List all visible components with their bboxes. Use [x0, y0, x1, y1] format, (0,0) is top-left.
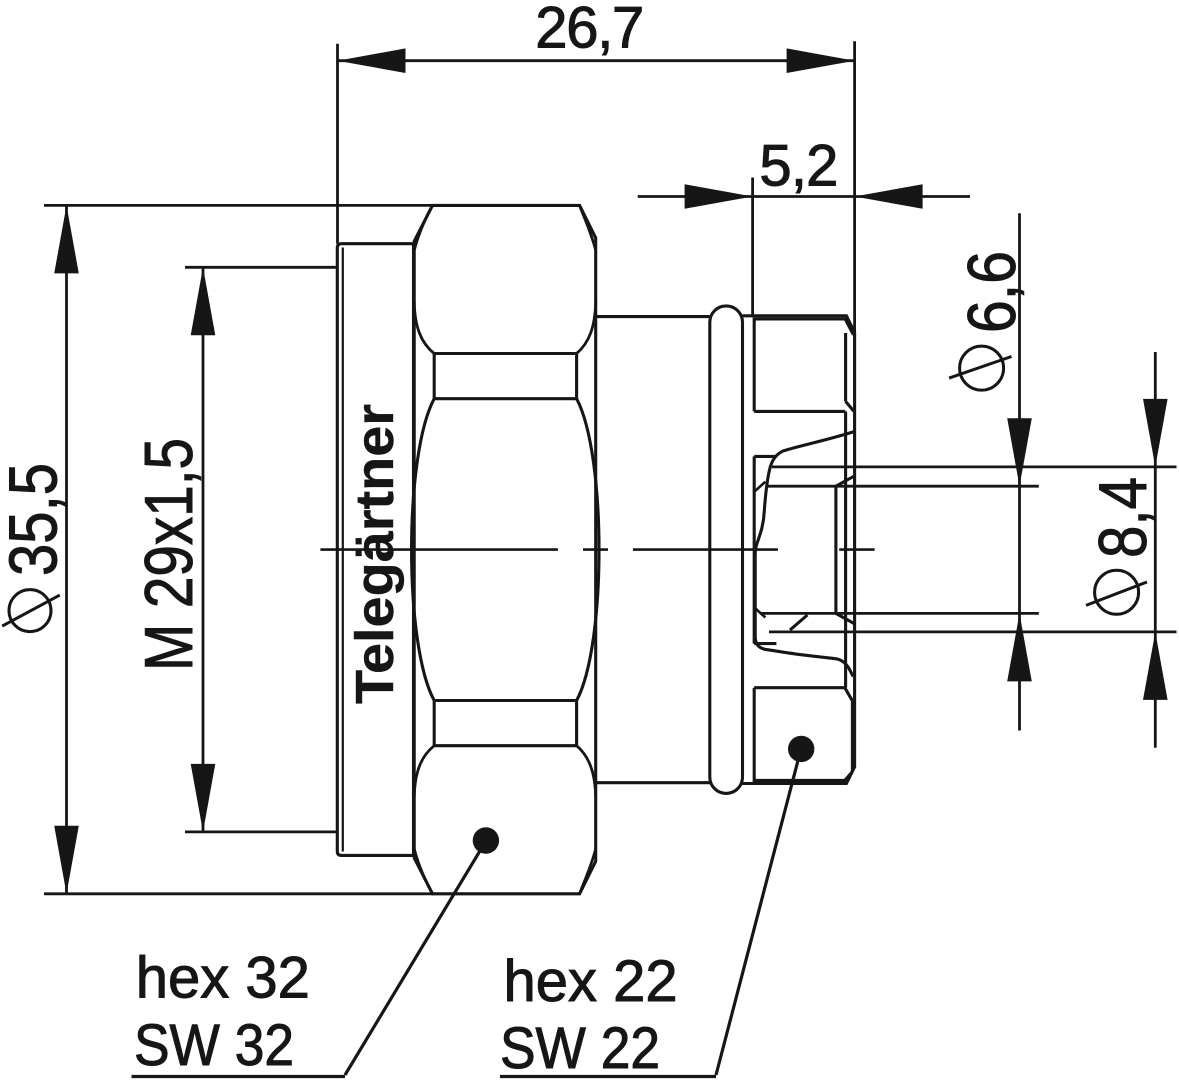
dim M29 line [202, 267, 205, 832]
hex32 top facet band arcs [414, 302, 596, 354]
leader hex22 [500, 761, 798, 1077]
o-ring gasket [710, 306, 743, 794]
thread section M29 body [337, 244, 413, 856]
hex32 bottom facet band arcs [414, 746, 596, 798]
svg-text:SW 22: SW 22 [500, 1016, 660, 1081]
hex22 middle facet edge [844, 411, 847, 687]
rear cylinder [596, 317, 710, 783]
svg-text:hex 22: hex 22 [504, 949, 678, 1014]
hex32 lower facet band [434, 701, 576, 746]
hex32 upper facet band [434, 354, 576, 399]
inner contact C-curve [755, 432, 854, 677]
hex22 callout dot [788, 736, 814, 762]
label d6,6 symbol [949, 346, 1011, 390]
dim d35,5 extensions [44, 205, 433, 893]
dim 26,7 / 5,2 extension right [853, 41, 856, 332]
dim M29 extensions [185, 267, 336, 832]
dim d35,5 line [65, 205, 68, 893]
svg-text:M 29x1,5: M 29x1,5 [131, 438, 207, 671]
inner bore lines d6.6 [760, 486, 1039, 613]
svg-text:26,7: 26,7 [535, 0, 644, 60]
dim d6,6 line [1018, 213, 1021, 730]
dim 5,2 extension left [751, 178, 754, 317]
svg-text:8,4: 8,4 [1085, 477, 1161, 558]
label d35,5 symbol [2, 590, 60, 632]
hex32 top facet corner arcs [414, 205, 595, 250]
bore step wall [834, 486, 837, 613]
dim 26,7 line [44, 41, 1155, 894]
svg-text:SW 32: SW 32 [134, 1013, 294, 1078]
dim 26,7 extension left [336, 44, 339, 244]
slot diagonal lower [790, 613, 854, 630]
arrowheads [54, 48, 1167, 893]
cavity notch diagonals [754, 482, 765, 618]
hex32 middle facet arcs [412, 399, 599, 701]
svg-text:35,5: 35,5 [0, 463, 72, 576]
hex32 callout dot [473, 827, 499, 853]
hex22 outer profile [743, 316, 855, 784]
svg-text:hex 32: hex 32 [136, 945, 310, 1010]
cavity hook upper [754, 456, 776, 643]
centerline [320, 548, 874, 551]
hex32 bottom facet corner arcs [414, 849, 595, 894]
svg-text:6,6: 6,6 [954, 251, 1030, 333]
leader hex32 [132, 851, 481, 1077]
dim d8,4 line [1154, 352, 1157, 748]
hex22 lower facet [754, 688, 852, 781]
slot diagonal upper [836, 476, 854, 486]
hex32 nut outline [414, 205, 596, 893]
dim 5,2 line [638, 195, 970, 198]
svg-text:Telegärtner: Telegärtner [345, 404, 405, 704]
label d8,4 symbol [1086, 570, 1147, 614]
inner bore lines d8.4 [769, 467, 1177, 632]
hex22 upper facet [754, 319, 854, 411]
svg-text:5,2: 5,2 [759, 134, 838, 199]
thread relief double line [342, 248, 344, 852]
